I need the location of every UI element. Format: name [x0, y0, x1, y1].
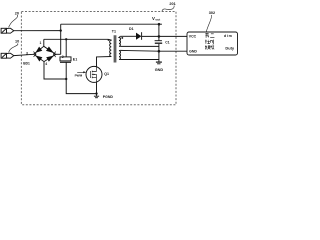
diode D1 [136, 32, 142, 40]
ground PGND symbol [94, 94, 99, 98]
label 302 leader [206, 15, 211, 32]
connector 10 leader [9, 43, 18, 52]
IC box 302 second control module [187, 32, 238, 55]
node junction source / PGND [95, 92, 97, 94]
transformer secondary winding W1 [119, 36, 121, 46]
transformer secondary polarity dot [121, 37, 123, 39]
svg-text:C1: C1 [165, 41, 169, 45]
transformer T1 primary winding [108, 39, 111, 56]
svg-text:out: out [155, 17, 160, 21]
capacitor C1 [155, 41, 163, 44]
svg-text:BD1: BD1 [23, 62, 30, 66]
transformer primary polarity dot [108, 39, 110, 41]
svg-text:302: 302 [209, 11, 215, 15]
label 201 leader [162, 6, 174, 12]
wire vertical AC line to bridge right corner [60, 24, 62, 54]
MOSFET Q1 internals [90, 67, 96, 82]
svg-text:GND: GND [155, 68, 164, 72]
svg-text:PWM: PWM [75, 74, 83, 78]
node junction DC- / E1 bottom [65, 78, 67, 80]
svg-text:T1: T1 [112, 29, 116, 33]
transformer secondary winding W2 [119, 50, 121, 59]
diode bottom-left points to left corner [36, 56, 43, 62]
wire bridge bottom to DC- node [44, 62, 66, 79]
capacitor E1 [60, 57, 71, 62]
svg-text:3: 3 [26, 52, 28, 56]
wire E1 top [65, 39, 67, 57]
connector 20 [1, 28, 14, 33]
svg-text:20: 20 [15, 11, 19, 15]
svg-text:4: 4 [45, 62, 47, 66]
node junction GND [158, 50, 161, 53]
svg-text:10: 10 [15, 40, 19, 44]
wire connector 10 to bridge left corner [14, 54, 34, 55]
diode top-right points to right corner [46, 47, 54, 53]
wire W2 top to GND node [120, 49, 159, 52]
text 第二 (second) [205, 33, 214, 38]
svg-text:201: 201 [169, 2, 175, 6]
wire bridge top corner riser [43, 39, 45, 46]
svg-text:D1: D1 [129, 27, 134, 31]
node junction AC line / top rail [60, 29, 62, 31]
wire E1 bottom down and PGND rail [66, 62, 96, 93]
connector 20 leader [9, 15, 18, 27]
svg-text:dim: dim [224, 34, 233, 38]
wire connector 20 to node [14, 30, 61, 32]
wire C1 bottom to GND node [158, 44, 160, 51]
svg-text:VCC: VCC [189, 34, 197, 38]
wire GND node to box GND pin [159, 50, 187, 52]
svg-text:PGND: PGND [103, 95, 114, 99]
wire W1 bottom to output return [120, 45, 159, 47]
bridge rectifier BD1 diamond [34, 46, 56, 61]
svg-text:Duty: Duty [225, 46, 234, 51]
dashed border box 201 [21, 12, 176, 105]
PWM gate arrow [77, 71, 84, 73]
connector 10 [1, 53, 14, 58]
svg-text:E1: E1 [73, 57, 77, 61]
node junction D1 / Vout / C1 [158, 35, 161, 38]
text 模块 (module) [205, 45, 214, 49]
transformer core [114, 35, 116, 62]
wire D1 cathode to VCC pin [142, 35, 187, 37]
wire Q1 source to PGND rail [96, 82, 98, 93]
wire bridge right stub [56, 53, 61, 55]
DC+ rail to transformer primary [44, 38, 109, 40]
node junction E1 top [65, 38, 67, 40]
svg-text:Q1: Q1 [104, 72, 109, 76]
ground GND symbol [156, 51, 162, 64]
wire W2 bottom to ground stem [120, 59, 159, 61]
svg-text:GND: GND [189, 50, 197, 54]
node Vout dot [158, 23, 161, 26]
wire primary bottom to Q1 drain [97, 57, 112, 67]
diode bottom-right points to right corner [46, 56, 54, 62]
MOSFET Q1 circle [86, 66, 102, 82]
diode top-left points to left corner [35, 47, 42, 53]
svg-text:1: 1 [40, 41, 42, 45]
text 控制 (control) [205, 40, 213, 45]
wire Vout node down to C1 [158, 24, 160, 41]
wire secondary W1 top to D1 [120, 35, 136, 37]
top rail to Vout node [61, 23, 162, 25]
